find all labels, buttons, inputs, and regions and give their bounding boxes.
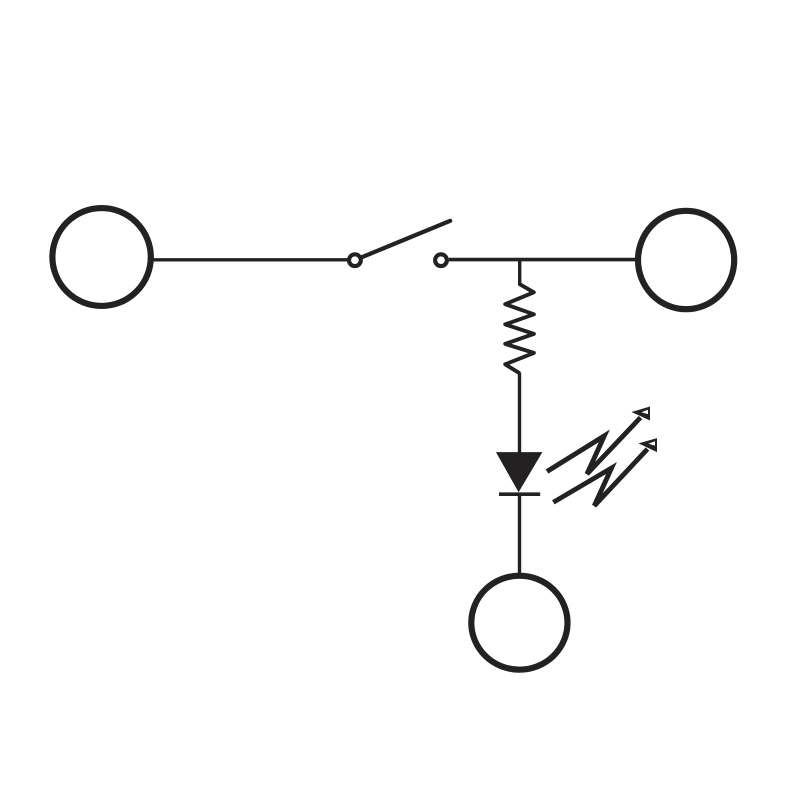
switch SW1 lever (362, 221, 450, 257)
terminal T3 (bottom circle) (471, 576, 567, 670)
LED light arrow 2 head (639, 438, 658, 452)
LED light arrow 2 shaft (lower flash) (553, 449, 647, 506)
LED light arrow 1 head (632, 407, 651, 421)
wire D1 to T3 (518, 494, 521, 575)
LED D1 anode triangle (497, 453, 542, 492)
wire T1 to switch (153, 258, 349, 261)
switch SW1 right contact (435, 254, 447, 266)
LED D1 cathode bar (499, 492, 540, 496)
terminal T2 (right circle) (638, 211, 734, 309)
switch SW1 left contact (349, 254, 361, 266)
terminal T1 (left circle) (52, 208, 150, 306)
resistor R1 (505, 284, 534, 373)
LED light arrow 1 shaft (upper flash) (547, 418, 641, 475)
wire junction down to resistor R1 (518, 260, 521, 286)
wire switch to T2 (449, 258, 637, 262)
wire R1 to LED D1 (518, 373, 521, 456)
